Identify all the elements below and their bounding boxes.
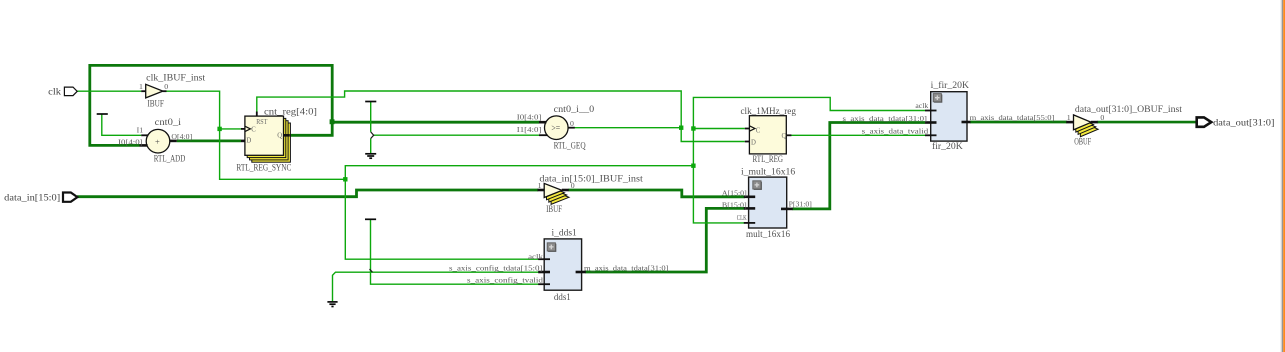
svg-text:i_dds1: i_dds1 bbox=[552, 229, 578, 239]
svg-text:s_axis_config_tvalid: s_axis_config_tvalid bbox=[467, 275, 543, 284]
svg-text:P[31:0]: P[31:0] bbox=[789, 199, 813, 208]
svg-text:0: 0 bbox=[164, 82, 168, 91]
ripper GEQ I1 bbox=[371, 132, 374, 139]
svg-text:1: 1 bbox=[139, 82, 143, 91]
wire cnt_reg Q feedback loop (thick bus) bbox=[90, 65, 332, 145]
svg-text:RTL_REG_SYNC: RTL_REG_SYNC bbox=[236, 163, 291, 173]
svg-text:cnt0_i__0: cnt0_i__0 bbox=[554, 105, 595, 115]
svg-text:m_axis_data_tdata[55:0]: m_axis_data_tdata[55:0] bbox=[970, 113, 1055, 122]
svg-text:fir_20K: fir_20K bbox=[932, 141, 963, 152]
vcc T1 bbox=[97, 113, 108, 115]
wire clk down branch to dds aclk bbox=[345, 179, 539, 259]
svg-text:I0[4:0]: I0[4:0] bbox=[517, 113, 542, 122]
svg-text:s_axis_data_tdata[31:0]: s_axis_data_tdata[31:0] bbox=[843, 114, 928, 123]
svg-text:I0[4:0]: I0[4:0] bbox=[118, 138, 143, 147]
block i_mult_16x16 bbox=[722, 168, 812, 240]
adder cnt0_i RTL_ADD bbox=[118, 118, 193, 164]
svg-text:RTL_REG: RTL_REG bbox=[753, 155, 784, 165]
svg-text:data_in[15:0]: data_in[15:0] bbox=[4, 192, 60, 203]
wire dds1 out to mult B (thick bus) bbox=[585, 208, 745, 272]
wire clk down to mult CLK bbox=[693, 166, 744, 223]
svg-text:s_axis_data_tvalid: s_axis_data_tvalid bbox=[862, 127, 929, 136]
svg-text:IBUF: IBUF bbox=[147, 100, 164, 110]
svg-text:i_fir_20K: i_fir_20K bbox=[931, 80, 970, 91]
block i_fir_20K bbox=[843, 80, 1055, 152]
svg-text:i_mult_16x16: i_mult_16x16 bbox=[741, 168, 796, 178]
svg-text:CLK: CLK bbox=[737, 213, 747, 222]
wire adder O to cnt_reg D (thick bus) bbox=[177, 139, 241, 142]
svg-text:1: 1 bbox=[1067, 113, 1071, 122]
block i_dds1 bbox=[449, 229, 669, 303]
svg-text:Q: Q bbox=[277, 133, 282, 140]
vcc T2 (const near GEQ) bbox=[365, 101, 376, 103]
buffer IBUF clk_IBUF_inst bbox=[139, 74, 206, 110]
port data_out[31:0] bbox=[1197, 117, 1275, 128]
wire gnd to dds config tdata bbox=[333, 272, 540, 301]
svg-text:data_out[31:0]: data_out[31:0] bbox=[1213, 118, 1274, 129]
wire clk up branch to x=693 bbox=[345, 166, 693, 180]
wire fir out to OBUF (thick bus) bbox=[970, 121, 1067, 124]
svg-text:C: C bbox=[756, 127, 761, 134]
svg-text:clk: clk bbox=[48, 87, 61, 98]
panel edge gray line bbox=[1281, 0, 1284, 352]
wire const tap to GEQ I1 bbox=[374, 134, 539, 136]
svg-text:cnt_reg[4:0]: cnt_reg[4:0] bbox=[264, 107, 317, 117]
svg-text:C: C bbox=[251, 127, 256, 134]
wire const bus vertical near GEQ bbox=[370, 102, 372, 154]
junction clk at 693,128.5 bbox=[691, 126, 695, 130]
svg-text:RTL_ADD: RTL_ADD bbox=[154, 155, 186, 165]
svg-text:OBUF: OBUF bbox=[1074, 138, 1091, 148]
comparator cnt0_i__0 RTL_GEQ bbox=[517, 105, 595, 152]
svg-text:clk_IBUF_inst: clk_IBUF_inst bbox=[146, 74, 205, 84]
svg-text:I1: I1 bbox=[137, 125, 144, 134]
wire mult P to fir tdata (thick bus) bbox=[792, 123, 925, 209]
junction cnt_reg bus bbox=[330, 119, 335, 124]
register stack cnt_reg[4:0] RTL_REG_SYNC bbox=[236, 107, 317, 173]
svg-text:A[15:0]: A[15:0] bbox=[722, 189, 747, 198]
junction clk at 345,179 bbox=[343, 177, 347, 181]
buffer data_out[31:0]_OBUF_inst (stacked) bbox=[1066, 105, 1182, 148]
svg-text:0: 0 bbox=[570, 119, 574, 128]
svg-text:aclk: aclk bbox=[915, 101, 928, 110]
svg-text:s_axis_config_tdata[15:0]: s_axis_config_tdata[15:0] bbox=[449, 263, 543, 272]
port clk bbox=[48, 87, 77, 98]
svg-text:I1[4:0]: I1[4:0] bbox=[517, 125, 542, 134]
wire clk rise to fir aclk bbox=[693, 97, 925, 165]
svg-text:m_axis_data_tdata[31:0]: m_axis_data_tdata[31:0] bbox=[584, 263, 669, 272]
svg-text:aclk: aclk bbox=[528, 252, 543, 261]
wire clk IBUF out down-around bbox=[166, 91, 345, 179]
wire GEQ output bbox=[575, 127, 682, 129]
register clk_1MHz_reg RTL_REG bbox=[741, 107, 797, 165]
svg-text:1: 1 bbox=[538, 181, 542, 190]
panel edge orange strip bbox=[1283, 0, 1285, 352]
buffer data_in[15:0]_IBUF_inst (stacked) bbox=[538, 174, 644, 215]
svg-text:0: 0 bbox=[1100, 113, 1104, 122]
svg-text:RTL_GEQ: RTL_GEQ bbox=[554, 141, 586, 151]
svg-text:0: 0 bbox=[571, 181, 575, 190]
wire clk_1MHz Q to fir tvalid bbox=[791, 134, 925, 136]
svg-text:D: D bbox=[246, 138, 251, 145]
ripper dds tdata bbox=[370, 269, 373, 272]
svg-text:cnt0_i: cnt0_i bbox=[155, 118, 182, 128]
svg-text:dds1: dds1 bbox=[554, 293, 571, 303]
wire data_in bus port to IBUF bbox=[77, 190, 538, 197]
svg-text:D: D bbox=[751, 140, 756, 147]
svg-text:data_in[15:0]_IBUF_inst: data_in[15:0]_IBUF_inst bbox=[539, 174, 643, 184]
svg-text:+: + bbox=[155, 136, 160, 146]
port data_in[15:0] bbox=[4, 192, 77, 203]
wire clk port to IBUF bbox=[77, 90, 141, 92]
wire data_in IBUF out to mult A (thick bus) bbox=[569, 190, 745, 197]
svg-text:mult_16x16: mult_16x16 bbox=[746, 230, 790, 240]
junction clk at cnt_reg C bbox=[217, 127, 221, 131]
junction clk at 693,166 bbox=[691, 164, 695, 168]
wire clk tap to clk_1MHz_reg C bbox=[693, 128, 744, 130]
svg-text:clk_1MHz_reg: clk_1MHz_reg bbox=[741, 107, 797, 117]
svg-text:data_out[31:0]_OBUF_inst: data_out[31:0]_OBUF_inst bbox=[1075, 105, 1183, 115]
wire const1 T to adder I1 bbox=[102, 114, 141, 135]
ground near GEQ bbox=[365, 154, 376, 158]
svg-text:RST: RST bbox=[256, 119, 268, 126]
svg-text:B[15:0]: B[15:0] bbox=[722, 201, 747, 210]
wire cnt_reg bus branch to RTL_GEQ I0 bbox=[332, 121, 539, 124]
svg-text:Q: Q bbox=[782, 133, 787, 140]
wire cnt0_i__0 net to RST and clk_1MHz D bbox=[257, 91, 745, 142]
svg-text:O[4:0]: O[4:0] bbox=[171, 132, 192, 141]
svg-text:>=: >= bbox=[551, 123, 560, 133]
vcc T3 (const near dds) bbox=[365, 218, 376, 220]
svg-text:IBUF: IBUF bbox=[546, 205, 562, 215]
wire const1 T2 to dds tvalid bbox=[371, 219, 540, 284]
wire OBUF to data_out port (thick bus) bbox=[1097, 121, 1196, 124]
junction GEQ out at 681,127.7 bbox=[679, 126, 683, 130]
ground near dds bbox=[327, 302, 337, 307]
wire clk tap to cnt_reg C bbox=[220, 128, 241, 130]
